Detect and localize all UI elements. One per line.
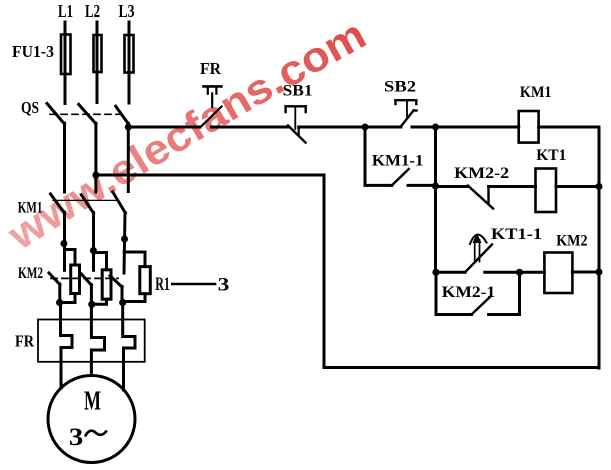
wire L1 below KM1 xyxy=(63,213,66,271)
fuse FU2 xyxy=(94,35,102,72)
wire L3 below KM1 xyxy=(124,213,125,274)
wire L2 mid xyxy=(94,123,97,192)
svg-text:3: 3 xyxy=(69,424,83,451)
wire L1 mid xyxy=(63,123,66,192)
contactor KM2 pole 1 blade xyxy=(49,273,60,285)
contactor KM1 pole 2 blade xyxy=(81,195,93,213)
svg-text:M: M xyxy=(84,386,101,416)
FR heater phase2 xyxy=(91,304,104,375)
wire SB1 to SB2 xyxy=(299,126,401,129)
resistor R1 branch phase3 xyxy=(124,252,145,267)
wire KT1-1 to junction xyxy=(485,271,520,274)
wire row3 left xyxy=(436,271,465,274)
junction SB2 / relay column xyxy=(432,124,439,131)
junction L2 to return wire xyxy=(92,172,99,179)
contact KT1-1 blade xyxy=(465,245,492,273)
KM2 linkage dashed xyxy=(51,277,118,279)
SB1 actuator xyxy=(294,108,296,130)
SB2 actuator xyxy=(406,102,408,118)
switch QS pole 1 blade xyxy=(47,104,65,125)
junction phase2 resistor branch bottom xyxy=(88,301,95,308)
svg-text:L1: L1 xyxy=(58,1,73,21)
junction phase2 resistor branch top xyxy=(90,247,97,254)
FR heater phase3 xyxy=(123,303,135,391)
KT1-1 delay arrowhead xyxy=(473,234,482,244)
svg-text:QS: QS xyxy=(21,98,39,117)
contactor KM2 pole 3 blade xyxy=(110,276,122,287)
wire phase3 below KM2 xyxy=(121,287,124,303)
svg-text:FR: FR xyxy=(15,332,35,351)
wire KM2-2 to KT1 coil xyxy=(489,185,536,188)
wire KT1 coil to right rail xyxy=(556,185,599,188)
junction SB1-SB2 / KM1-1 branch xyxy=(362,124,369,131)
KM2-2 fixed tick xyxy=(487,187,489,203)
wire L1 phase top xyxy=(64,22,67,104)
junction KM2 row right rail xyxy=(596,269,603,276)
pushbutton SB2 blade xyxy=(401,111,417,127)
wire junction to KM2 coil xyxy=(520,271,545,274)
junction phase3 resistor branch top xyxy=(121,236,128,243)
switch QS pole 2 blade xyxy=(79,104,96,123)
FR contact actuator xyxy=(211,93,213,107)
wire L3 phase top xyxy=(128,22,131,103)
switch QS pole 3 blade xyxy=(116,106,129,124)
svg-text:KM2-2: KM2-2 xyxy=(454,165,509,182)
svg-text:KM2: KM2 xyxy=(556,232,587,249)
fuse FU1 xyxy=(61,35,71,75)
junction KM1-1 / KM2-2 row xyxy=(432,182,439,189)
wire to KM2-2 xyxy=(436,185,468,188)
fuse FU3 xyxy=(125,35,134,73)
svg-text:FU1-3: FU1-3 xyxy=(12,42,54,61)
junction phase1 resistor branch top xyxy=(60,240,67,247)
svg-text:L3: L3 xyxy=(119,1,135,21)
thermal relay FR box xyxy=(38,320,145,362)
junction phase3 resistor branch bottom xyxy=(119,299,126,306)
svg-text:SB1: SB1 xyxy=(283,83,313,100)
KM1 linkage line xyxy=(53,199,117,201)
right rail xyxy=(598,127,601,368)
junction phase1 resistor branch bottom xyxy=(56,299,63,306)
KM2-1 branch xyxy=(436,272,472,314)
svg-text:KT1: KT1 xyxy=(536,147,566,164)
svg-text:FR: FR xyxy=(200,59,222,78)
contact KM2-1 blade xyxy=(472,296,492,315)
resistor R1 branch phase2 xyxy=(93,253,106,270)
resistor R1 branch phase1 xyxy=(65,250,76,266)
branch wire down from SB1 junction xyxy=(365,127,392,185)
wire FR to SB1 xyxy=(212,126,289,129)
contact KM2-2 blade xyxy=(468,186,493,209)
junction KT1-1 row left xyxy=(432,269,439,276)
coil KM1 xyxy=(519,111,539,143)
junction L3 to control wire xyxy=(125,124,132,131)
svg-text:KM1: KM1 xyxy=(520,84,552,101)
svg-text:L2: L2 xyxy=(85,1,100,21)
svg-text:R1: R1 xyxy=(155,274,170,295)
motor AC symbol xyxy=(85,431,107,437)
junction KT1 row right rail xyxy=(596,183,603,190)
wire L2 below KM1 xyxy=(92,213,95,271)
control main wire from L3 to FR contact xyxy=(128,126,200,129)
coil KT1 xyxy=(536,169,557,213)
FR contact blade xyxy=(200,107,222,128)
svg-text:KM1: KM1 xyxy=(18,200,43,217)
contactor KM1 pole 1 blade xyxy=(51,194,65,213)
contact KM1-1 blade xyxy=(392,169,409,185)
svg-text:KT1-1: KT1-1 xyxy=(491,226,542,243)
wire phase1 below KM2 xyxy=(58,284,61,303)
wire L3 mid xyxy=(127,123,130,191)
pushbutton SB1 blade xyxy=(288,126,306,143)
wire KM1 coil to right rail xyxy=(539,126,599,129)
svg-text:SB2: SB2 xyxy=(384,79,416,96)
motor M circle xyxy=(48,376,135,463)
return wire from L2 xyxy=(96,175,599,368)
QS linkage dashed xyxy=(50,113,122,115)
wire phase2 below KM2 xyxy=(90,285,93,305)
contactor KM1 pole 3 blade xyxy=(113,192,126,213)
SB1 fixed contact tick xyxy=(298,127,300,135)
svg-text:KM2-1: KM2-1 xyxy=(442,284,495,301)
FR heater phase1 xyxy=(61,303,73,389)
contactor KM2 pole 2 blade xyxy=(81,274,91,285)
svg-text:KM1-1: KM1-1 xyxy=(372,153,424,170)
svg-text:3: 3 xyxy=(218,275,230,296)
KT1-1 delay symbol xyxy=(470,235,487,244)
junction KM2-1 branch right xyxy=(516,269,523,276)
coil KM2 xyxy=(544,253,572,294)
wire SB2 to KM1 coil xyxy=(412,126,519,129)
svg-text:KM2: KM2 xyxy=(18,265,43,282)
wire KM2 coil to right rail xyxy=(572,271,599,274)
wire KM1-1 to junction xyxy=(408,184,436,187)
wire L2 phase top xyxy=(96,22,99,103)
vertical junction wire xyxy=(434,127,437,272)
svg-text:www.elecfans.com: www.elecfans.com xyxy=(0,10,373,259)
